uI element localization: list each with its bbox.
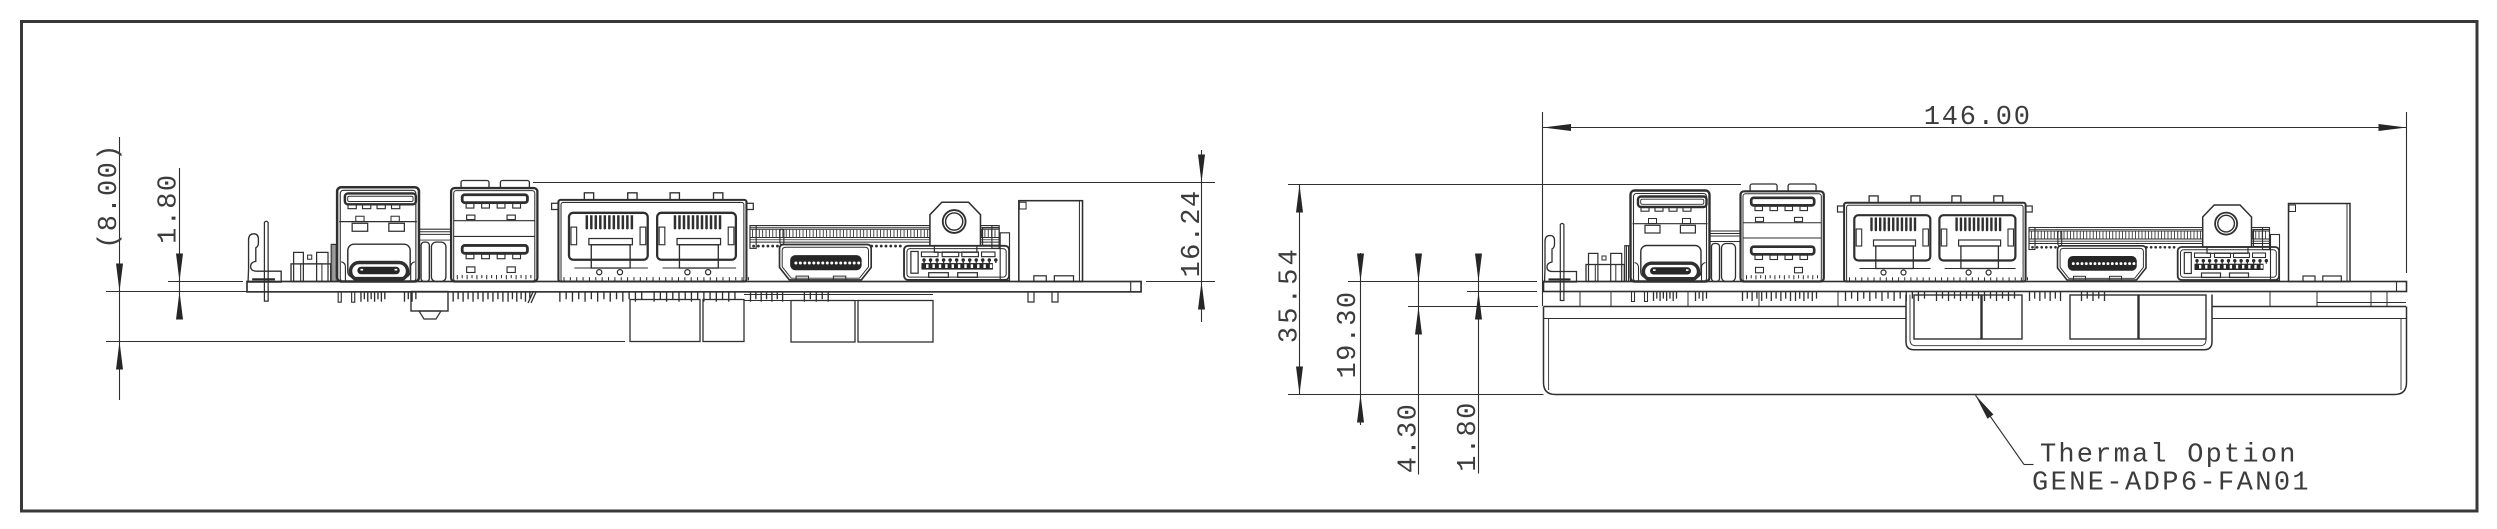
extension line right view top [1288,184,1741,186]
svg-text:4.30: 4.30 [1395,403,1425,473]
thermal module box 3 [2070,295,2138,339]
dimension 35.54 line [1296,185,1303,395]
thermal module cutout [1906,295,2212,350]
dimension 146.00 extension right [2406,112,2408,273]
svg-text:1.80: 1.80 [155,173,185,243]
svg-text:16.24: 16.24 [1178,189,1208,277]
heatsink mounting row under PCB [1580,292,2406,307]
left view: under-board component box 3 [791,301,855,343]
extension line PCB top right view [1348,281,1537,283]
left view: slanted pin [528,292,536,303]
left view: under-board component box 2 [703,300,744,342]
dimension 1.80 right line [1475,254,1482,474]
dimension 146.00 extension left [1542,112,1544,306]
left view: under-board thin bar [744,295,933,301]
dimension (8.00) line [116,137,123,400]
left view: under-board component box 1 [630,300,700,342]
svg-text:19.30: 19.30 [1334,290,1364,378]
dimension 19.30 line [1357,253,1364,425]
svg-text:GENE-ADP6-FAN01: GENE-ADP6-FAN01 [2032,469,2311,499]
thermal module box 4 [2139,295,2206,339]
thermal module box 2 [1982,295,2022,339]
extension line PCB bottom right view [1467,291,1537,293]
right side view of board [1544,184,2407,302]
leader line thermal option [1976,395,2034,464]
svg-text:146.00: 146.00 [1924,103,2032,133]
thermal module box 1 [1914,295,1981,339]
dimension 16.24 extension top [533,182,1215,184]
extension line PCB top left [168,281,243,283]
dimension 16.24 extension bottom [1146,281,1215,283]
left view: under-board pins right [1028,292,1058,302]
svg-text:(8.00): (8.00) [95,143,125,249]
extension line PCB bottom left [106,291,247,293]
dimension 146.00 line [1543,124,2407,131]
left side view of board (scaled copy) [247,180,1141,302]
left view: under-board mounting box below USB-C [411,292,448,320]
svg-text:1.80: 1.80 [1454,401,1484,471]
dimension 1.80 left line [176,168,183,320]
dimension 4.30 line [1415,254,1422,475]
extension line right view bottom [1288,394,1544,396]
left view: under-board component box 4 [858,301,933,343]
heatsink top plate [1544,307,2407,319]
extension line bottom reference [106,341,625,343]
dimension 16.24 line [1198,150,1205,322]
svg-text:Thermal Option: Thermal Option [2040,441,2298,471]
svg-text:35.54: 35.54 [1276,246,1306,343]
extension line 4.30 level [1408,306,1538,308]
heatsink body [1544,307,2407,395]
